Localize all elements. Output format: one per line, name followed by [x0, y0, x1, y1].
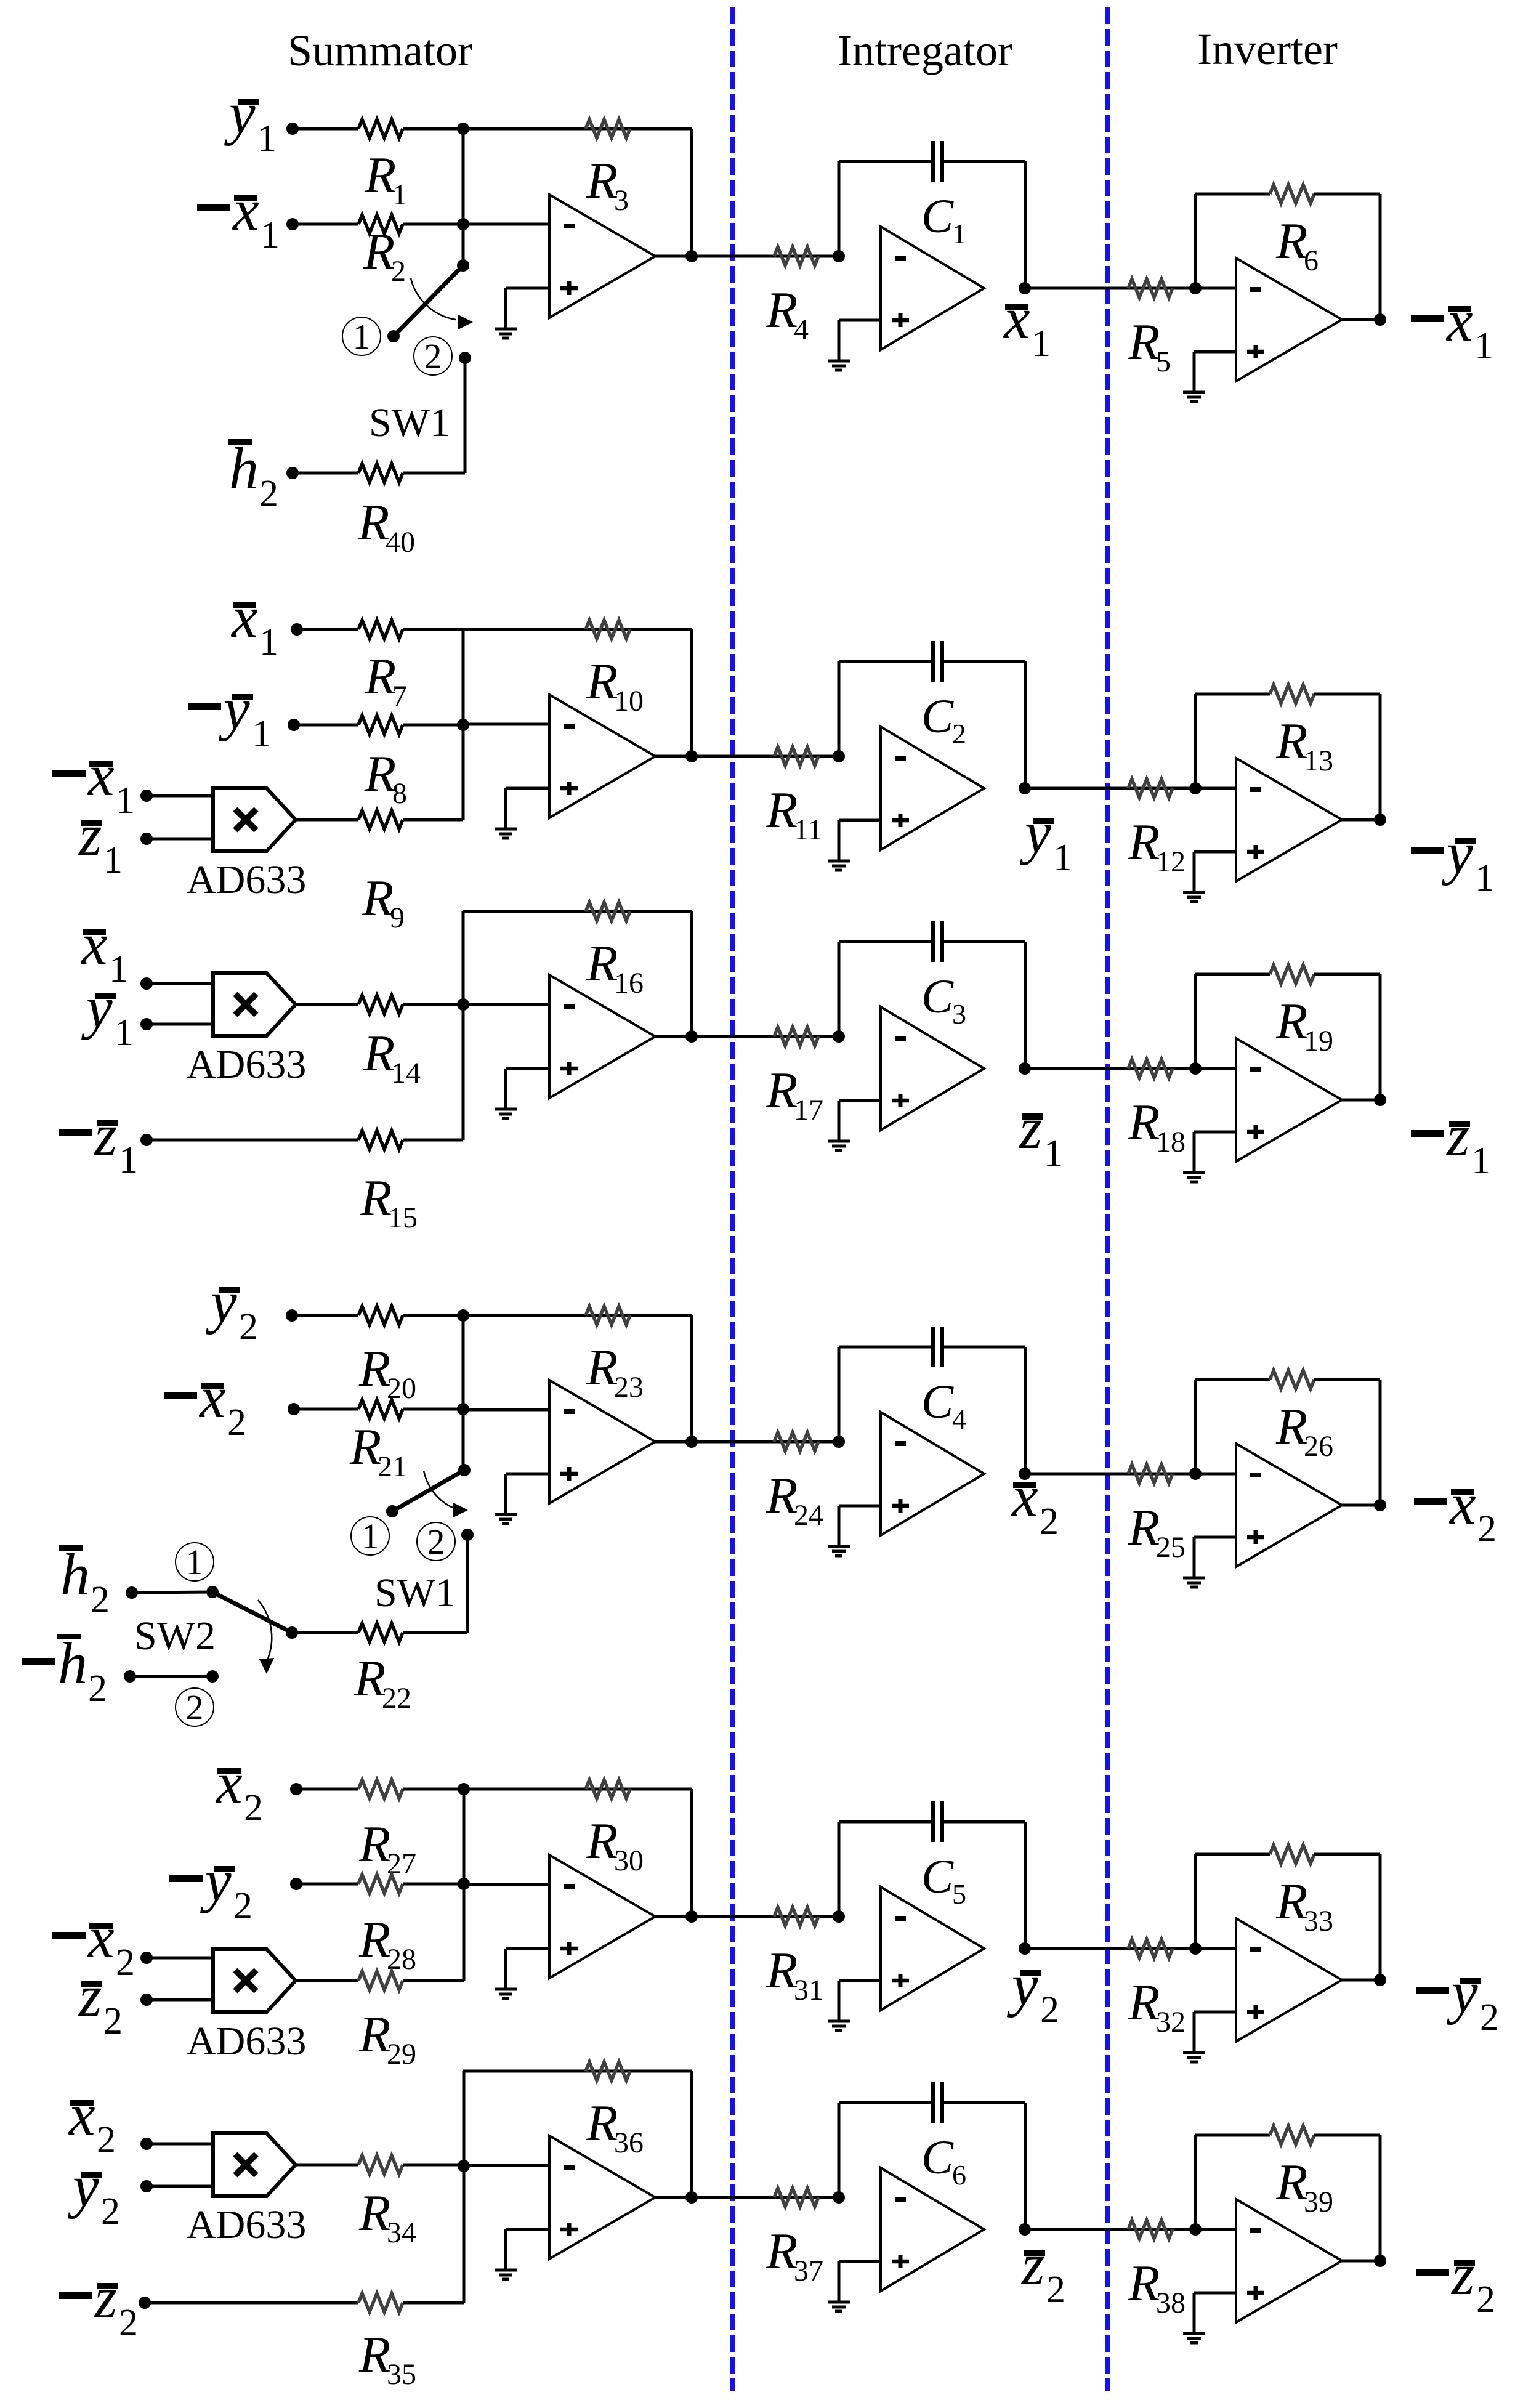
svg-text:AD633: AD633 [187, 2019, 306, 2064]
svg-text:24: 24 [794, 1499, 823, 1532]
svg-text:z: z [93, 2265, 117, 2330]
wire: capacitor C6 right leg down to integrator output [1024, 2103, 1027, 2229]
node: input terminal -y1bar (row 2) [288, 719, 300, 731]
resistor R24 [774, 1432, 818, 1451]
node: integrator row 4 inverting input [833, 1436, 845, 1448]
wire: y1bar input to resistor R1 [293, 127, 358, 131]
op-amp integrator row 1 [881, 227, 984, 350]
svg-text:R: R [358, 1340, 390, 1397]
node: inverter row 6 inverting input [1189, 2223, 1202, 2236]
svg-text:2: 2 [1040, 1501, 1059, 1543]
node: inverter row 3 inverting input [1189, 1062, 1202, 1075]
svg-text:7: 7 [392, 680, 407, 713]
wire: summator row 2 feedback right leg down [690, 629, 693, 756]
svg-text:R: R [1128, 313, 1160, 371]
node: multiplier input terminal x1bar (row 3) [140, 977, 153, 990]
node: inverter row 4 output [1374, 1499, 1386, 1511]
node: inverter row 3 output [1374, 1094, 1386, 1106]
svg-text:Summator: Summator [288, 26, 472, 75]
multiplier U3 AD633 (row 5) [213, 1949, 296, 2012]
svg-text:2: 2 [186, 1687, 204, 1727]
svg-text:z: z [1445, 1102, 1469, 1168]
label: input net y2bar (row 4) [205, 1269, 258, 1348]
wire: inverter row 6 output [1342, 2260, 1380, 2263]
svg-text:R: R [363, 1025, 395, 1082]
op-amp integrator row 2 [881, 727, 984, 850]
wire: y2bar input to resistor R20 [292, 1314, 358, 1317]
svg-text:1: 1 [1044, 1133, 1063, 1174]
wire: z2bar to multiplier (row 5) [147, 1998, 213, 2002]
svg-text:19: 19 [1304, 1025, 1333, 1057]
wire: resistor R14 to junction (row 3) [403, 1003, 463, 1006]
svg-text:2: 2 [391, 255, 406, 288]
svg-text:C: C [921, 2130, 954, 2184]
op-amp inverter row 1 [1236, 258, 1342, 381]
svg-text:10: 10 [614, 685, 644, 717]
wire: inverter row 5 feedback right leg down to output [1379, 1854, 1382, 1980]
label: output net -z2bar (row 6) [1416, 2241, 1495, 2321]
capacitor C3 [933, 921, 942, 962]
svg-text:11: 11 [794, 814, 822, 846]
wire: junction vertical (row 6) [463, 2071, 466, 2303]
wire: resistor R8 to junction [403, 724, 463, 727]
wire: summator row 5 feedback right leg down [690, 1789, 693, 1917]
label: multiplier input -x1bar (row 2) [52, 742, 135, 822]
label: input net -h2bar (SW2) [22, 1630, 107, 1710]
svg-text:22: 22 [382, 1682, 411, 1715]
label R26 [1275, 1398, 1333, 1463]
wire: inverter row 4 feedback left leg up [1194, 1380, 1197, 1474]
svg-text:2: 2 [239, 1306, 258, 1348]
wire: capacitor C5 right leg down to integrator output [1024, 1822, 1027, 1949]
wire: inverter row 4 feedback top left segment [1195, 1378, 1270, 1381]
svg-text:R: R [364, 648, 396, 705]
svg-text:R: R [1275, 212, 1307, 270]
svg-text:1: 1 [1474, 325, 1493, 367]
wire: capacitor C2 right leg down to integrator output [1024, 661, 1027, 788]
wire: summator row 2 output to integrator input resistor R11 [655, 755, 839, 758]
svg-text:25: 25 [1156, 1531, 1186, 1564]
op-amp summator row 1 [549, 195, 655, 318]
wire: switch SW1 throw 2 down to R40 [464, 358, 467, 473]
resistor R12 [1128, 779, 1173, 798]
wire: inverter row 4 feedback right leg down to output [1379, 1380, 1382, 1505]
wire: inverter row 3 output [1342, 1099, 1380, 1102]
op-amp inverter row 5 [1236, 1918, 1342, 2042]
wire: capacitor C5 left leg up [838, 1822, 841, 1917]
wire: capacitor C1 right leg down to integrator output [1024, 161, 1027, 288]
node: input terminal y1bar [286, 123, 299, 135]
svg-text:1: 1 [392, 179, 407, 211]
label: input net y1bar (row 1) [224, 80, 277, 160]
node: switch SW1 throw 1 contact (row 4) [386, 1505, 398, 1517]
svg-text:38: 38 [1156, 2287, 1186, 2319]
svg-text:R: R [1128, 2255, 1160, 2312]
svg-text:z: z [1018, 1095, 1042, 1161]
resistor R17 [774, 1027, 818, 1046]
wire: capacitor C5 top left segment [839, 1820, 933, 1824]
wire: junction vertical (row 5) [463, 1789, 466, 1981]
svg-text:3: 3 [614, 184, 629, 217]
svg-text:Intregator: Intregator [838, 26, 1012, 75]
wire: integrator row 5 output to inverter input resistor R32 [1025, 1947, 1195, 1950]
label R8 [364, 745, 407, 810]
wire: -z1bar input to resistor R15 [147, 1139, 358, 1142]
svg-text:R: R [358, 2184, 390, 2242]
wire: capacitor C1 top right segment [942, 160, 1025, 163]
resistor R9 [358, 810, 403, 829]
label R5 [1128, 313, 1171, 378]
ground at integrator row 6 non-inverting input [828, 2261, 850, 2311]
svg-text:5: 5 [952, 1878, 966, 1910]
node: junction of R27 and feedback (row 5) [458, 1783, 470, 1795]
svg-text:1: 1 [1053, 837, 1072, 879]
label: input net -x2bar (row 4) [164, 1364, 246, 1444]
wire: inverter row 1 inverting input to op-amp [1195, 287, 1236, 290]
wire: capacitor C4 left leg up [838, 1347, 841, 1442]
op-amp summator row 4 [549, 1380, 655, 1503]
wire: x1bar to multiplier (row 3) [147, 982, 213, 985]
wire: resistor R34 to junction (row 6) [403, 2164, 464, 2167]
wire: -x2bar input to resistor R21 [294, 1408, 358, 1411]
resistor R31 [774, 1907, 818, 1926]
node: switch SW1 pivot (row 1) [457, 259, 469, 272]
wire: inverter row 5 feedback left leg up [1194, 1854, 1197, 1949]
resistor R15 [358, 1131, 403, 1149]
label: switch position 2 (SW1 row 4) [417, 1522, 455, 1562]
svg-text:2: 2 [116, 1942, 135, 1984]
ground at inverter row 1 non-inverting input [1183, 352, 1205, 402]
ground at inverter row 5 non-inverting input [1183, 2012, 1205, 2062]
wire: inverter row 2 feedback right leg down to output [1379, 694, 1382, 820]
wire: -x1bar input to resistor R2 [293, 223, 358, 226]
node: integrator row 6 output [1019, 2223, 1031, 2236]
svg-text:x: x [1003, 285, 1030, 351]
svg-text:x: x [87, 742, 115, 808]
svg-text:x: x [1448, 1471, 1476, 1537]
wire: capacitor C6 left leg up [838, 2103, 841, 2197]
wire: summator row 1 feedback top segment [463, 127, 692, 131]
op-amp inverter row 3 [1236, 1038, 1342, 1162]
wire: resistor R40 to switch SW1 throw 2 [403, 472, 465, 475]
wire: SW2 pole to resistor R22 [292, 1631, 358, 1634]
label: switch position 1 (SW2) [176, 1542, 214, 1582]
svg-text:2: 2 [227, 1402, 246, 1444]
node: summator row 4 output [685, 1436, 698, 1448]
node: junction of R2 at op-amp input (row 1) [457, 218, 469, 230]
label: input net x2bar (row 5) [215, 1750, 263, 1829]
label R17 [766, 1062, 823, 1126]
node: inverter row 1 output [1374, 313, 1386, 326]
label C1 [921, 189, 966, 249]
svg-text:1: 1 [115, 1012, 134, 1054]
resistor R27 [358, 1780, 403, 1798]
svg-text:R: R [1275, 993, 1307, 1050]
blue dashed separator line between Summator and Intregator columns [730, 7, 735, 2391]
label: output net -y2bar (row 5) [1416, 1959, 1499, 2038]
resistor R32 [1128, 1939, 1173, 1958]
node: input terminal -z2bar (row 6) [139, 2297, 151, 2309]
svg-text:2: 2 [244, 1787, 263, 1829]
wire: inverter row 5 non-inverting input [1194, 2011, 1236, 2014]
wire: -x2bar to multiplier (row 5) [147, 1957, 213, 1960]
ground at summator row 1 non-inverting input [495, 288, 517, 338]
wire: integrator row 2 non-inverting input [839, 819, 881, 822]
wire: summator row 4 output to node [655, 1440, 692, 1444]
label: multiplier input z1bar (row 2) [78, 802, 123, 881]
resistor R25 [1128, 1465, 1173, 1483]
node: switch SW1 throw 1 contact (row 1) [387, 330, 400, 342]
resistor R30 [586, 1780, 630, 1798]
svg-text:13: 13 [1304, 745, 1333, 777]
switch SW1 lever (row 4) [392, 1470, 464, 1511]
capacitor C4 [933, 1327, 942, 1367]
wire: summator row 5 output to node [655, 1915, 692, 1918]
svg-text:2: 2 [119, 2302, 138, 2344]
resistor R20 [358, 1306, 403, 1325]
label R12 [1128, 814, 1186, 878]
node: integrator row 3 output [1019, 1062, 1031, 1075]
label: multiplier input x2bar (row 6) [68, 2082, 116, 2161]
wire: summator row 4 feedback right leg down [690, 1315, 693, 1442]
resistor R22 [358, 1623, 403, 1642]
node: junction of R21 at op-amp input (row 4) [457, 1403, 469, 1415]
node: multiplier input terminal x2bar (row 6) [140, 2138, 153, 2150]
wire: inverter row 5 output [1342, 1979, 1380, 1982]
wire: resistor R20 to junction [403, 1314, 463, 1317]
node: inverter row 4 inverting input [1189, 1468, 1202, 1480]
wire: resistor R21 to junction [403, 1408, 463, 1411]
wire: inverter row 2 feedback top left segment [1195, 693, 1270, 696]
resistor R8 [358, 716, 403, 734]
svg-text:x: x [230, 584, 258, 650]
svg-text:1: 1 [103, 839, 123, 881]
label R1 [364, 147, 407, 211]
label R28 [358, 1911, 416, 1976]
wire: integrator row 1 non-inverting input [839, 319, 881, 322]
svg-text:R: R [349, 1418, 381, 1476]
label C5 [921, 1849, 966, 1910]
arc arrow of switch SW1 (row 4) [424, 1471, 468, 1517]
wire: summator row 2 inverting input to op-amp [463, 723, 549, 726]
wire: summator row 1 output to integrator input resistor R4 [655, 255, 839, 258]
label R25 [1128, 1499, 1186, 1564]
wire: inverter row 2 non-inverting input [1194, 850, 1236, 854]
svg-text:2: 2 [952, 718, 966, 749]
wire: resistor R2 to junction [403, 223, 463, 226]
wire: inverter row 1 non-inverting input [1194, 350, 1236, 354]
wire: integrator row 4 output to inverter input resistor R25 [1025, 1473, 1195, 1476]
node: inverter row 6 output [1374, 2255, 1386, 2267]
svg-text:2: 2 [97, 2119, 116, 2161]
svg-text:Inverter: Inverter [1197, 25, 1338, 74]
svg-text:12: 12 [1156, 846, 1186, 878]
node: input terminal -z1bar (row 3) [140, 1134, 153, 1146]
resistor R18 [1128, 1059, 1173, 1078]
wire: summator row 3 feedback top segment [463, 910, 692, 913]
svg-text:31: 31 [794, 1974, 823, 2006]
svg-text:2: 2 [1480, 1997, 1499, 2038]
svg-text:SW1: SW1 [374, 1570, 456, 1615]
wire: multiplier output to resistor R9 [296, 818, 358, 822]
node: summator row 1 output [685, 250, 698, 262]
label: integrator output net x1bar [1003, 285, 1051, 365]
label R24 [766, 1467, 823, 1532]
label C3 [921, 969, 966, 1030]
wire: z1bar to multiplier (row 2) [147, 838, 213, 841]
svg-text:3: 3 [952, 998, 966, 1030]
wire: resistor R22 to switch SW1 throw 2 (row 4) [403, 1631, 467, 1634]
svg-text:2: 2 [259, 473, 278, 515]
arc arrow of switch SW2 [258, 1600, 274, 1674]
label: multiplier input y1bar (row 3) [81, 974, 134, 1054]
svg-text:AD633: AD633 [187, 1042, 306, 1087]
svg-text:2: 2 [103, 2000, 123, 2042]
svg-text:1: 1 [353, 317, 371, 357]
wire: capacitor C5 top right segment [942, 1820, 1025, 1824]
wire: y2bar to multiplier (row 6) [147, 2185, 213, 2188]
label R34 [358, 2184, 416, 2249]
wire: capacitor C4 top right segment [942, 1346, 1025, 1349]
node: junction of R20 and feedback (row 4) [457, 1309, 469, 1322]
wire: -y1bar input to resistor R8 [294, 724, 358, 727]
wire: summator row 2 non-inverting input [506, 787, 549, 790]
op-amp inverter row 6 [1236, 2199, 1342, 2322]
resistor R39 [1270, 2126, 1314, 2144]
label R32 [1128, 1974, 1186, 2038]
svg-text:32: 32 [1156, 2006, 1186, 2038]
ground at summator row 4 non-inverting input [495, 1474, 517, 1524]
node: summator row 3 output [685, 1030, 698, 1043]
label R14 [363, 1025, 421, 1089]
svg-text:1: 1 [1475, 857, 1494, 899]
wire: summator row 3 feedback right leg down [690, 911, 693, 1036]
label R13 [1275, 713, 1333, 777]
multiplier U4 AD633 (row 6) [213, 2133, 296, 2196]
wire: resistor R28 to junction [403, 1883, 464, 1886]
wire: capacitor C2 left leg up [838, 661, 841, 756]
node: SW2 throw 2 contact [206, 1670, 219, 1683]
label R9 [362, 870, 405, 934]
svg-text:R: R [363, 223, 395, 280]
svg-text:x: x [1011, 1463, 1038, 1529]
svg-text:4: 4 [794, 313, 809, 346]
svg-text:R: R [1128, 1974, 1160, 2031]
svg-text:R: R [766, 2223, 798, 2280]
svg-text:z: z [1020, 2231, 1044, 2297]
wire: summator row 4 non-inverting input [506, 1473, 549, 1476]
svg-text:39: 39 [1304, 2186, 1333, 2218]
label: output net -z1bar (row 3) [1411, 1102, 1490, 1182]
wire: inverter row 6 feedback left leg up [1194, 2135, 1197, 2229]
wire: summator row 5 output to integrator input resistor R31 [655, 1915, 839, 1918]
wire: y1bar to multiplier (row 3) [147, 1023, 213, 1026]
op-amp integrator row 5 [881, 1887, 984, 2010]
wire: inverter row 5 inverting input to op-amp [1195, 1947, 1236, 1950]
label R31 [766, 1942, 823, 2006]
svg-text:16: 16 [614, 967, 644, 1000]
svg-text:R: R [586, 1812, 618, 1870]
label R23 [586, 1339, 644, 1404]
wire: inverter row 5 feedback top left segment [1195, 1853, 1270, 1856]
svg-text:40: 40 [386, 526, 415, 559]
resistor R13 [1270, 685, 1314, 703]
node: junction at op-amp input (row 3) [457, 998, 469, 1011]
svg-text:R: R [364, 147, 396, 204]
resistor R5 [1128, 279, 1173, 297]
node: integrator row 4 output [1019, 1468, 1031, 1480]
svg-text:R: R [358, 1911, 390, 1968]
resistor R21 [358, 1400, 403, 1418]
svg-text:R: R [586, 653, 618, 710]
node: multiplier input terminal y2bar (row 6) [140, 2180, 153, 2192]
svg-text:z: z [78, 802, 102, 868]
wire: integrator row 2 output to inverter input resistor R12 [1025, 787, 1195, 790]
wire: inverter row 3 non-inverting input [1194, 1131, 1236, 1134]
switch SW1 lever (row 1) [394, 265, 463, 336]
label R10 [586, 653, 644, 717]
arc arrow of switch SW1 (row 1) [411, 278, 473, 329]
node: input terminal y2bar (row 4) [286, 1309, 298, 1322]
svg-text:2: 2 [91, 1579, 110, 1621]
wire: inverter row 1 feedback top right segment [1314, 193, 1380, 196]
svg-text:1: 1 [119, 1139, 138, 1181]
svg-text:30: 30 [614, 1844, 644, 1877]
node: inverter row 2 inverting input [1189, 782, 1202, 794]
svg-text:R: R [586, 935, 618, 992]
ground at integrator row 3 non-inverting input [828, 1101, 850, 1150]
resistor R16 [586, 902, 630, 921]
wire: inverter row 5 feedback top right segment [1314, 1853, 1380, 1856]
node: switch SW1 throw 2 contact (row 1) [459, 352, 471, 364]
svg-text:2: 2 [1477, 1508, 1497, 1550]
label R38 [1128, 2255, 1186, 2319]
wire: integrator row 3 output to inverter input resistor R18 [1025, 1067, 1195, 1070]
svg-text:1: 1 [257, 118, 277, 160]
wire: junction vertical between R1 and R2 lines (row 1) [462, 129, 465, 224]
wire: integrator row 3 non-inverting input [839, 1099, 881, 1102]
resistor R33 [1270, 1845, 1314, 1864]
op-amp summator row 3 [549, 975, 655, 1098]
svg-text:35: 35 [387, 2358, 416, 2391]
label: input net -y1bar (row 2) [188, 676, 271, 755]
svg-text:R: R [360, 1170, 392, 1227]
wire: summator row 5 non-inverting input [506, 1947, 549, 1950]
svg-text:R: R [358, 2326, 390, 2383]
resistor R37 [774, 2188, 818, 2207]
resistor R34 [358, 2155, 403, 2174]
wire: resistor R27 to junction [403, 1788, 464, 1791]
svg-text:x: x [68, 2082, 95, 2147]
svg-text:x: x [87, 1904, 115, 1970]
wire: capacitor C3 top right segment [942, 940, 1025, 943]
wire: inverter row 6 feedback top left segment [1195, 2134, 1270, 2137]
label: input net h2bar (row 1) [228, 435, 278, 515]
wire: inverter row 4 output [1342, 1504, 1380, 1507]
label R21 [349, 1418, 407, 1483]
node: summator row 5 output [685, 1910, 698, 1923]
node: inverter row 1 inverting input [1189, 282, 1202, 294]
wire: integrator row 5 non-inverting input [839, 1979, 881, 1982]
node: input terminal x2bar (row 5) [290, 1783, 302, 1795]
wire: multiplier output to resistor R14 [296, 1003, 358, 1006]
svg-text:1: 1 [116, 780, 135, 822]
op-amp integrator row 4 [881, 1412, 984, 1535]
svg-text:2: 2 [427, 1522, 445, 1562]
wire: inverter row 4 inverting input to op-amp [1195, 1473, 1236, 1476]
wire: capacitor C6 top left segment [839, 2101, 933, 2104]
node: input terminal h2bar (SW2) [126, 1586, 138, 1599]
